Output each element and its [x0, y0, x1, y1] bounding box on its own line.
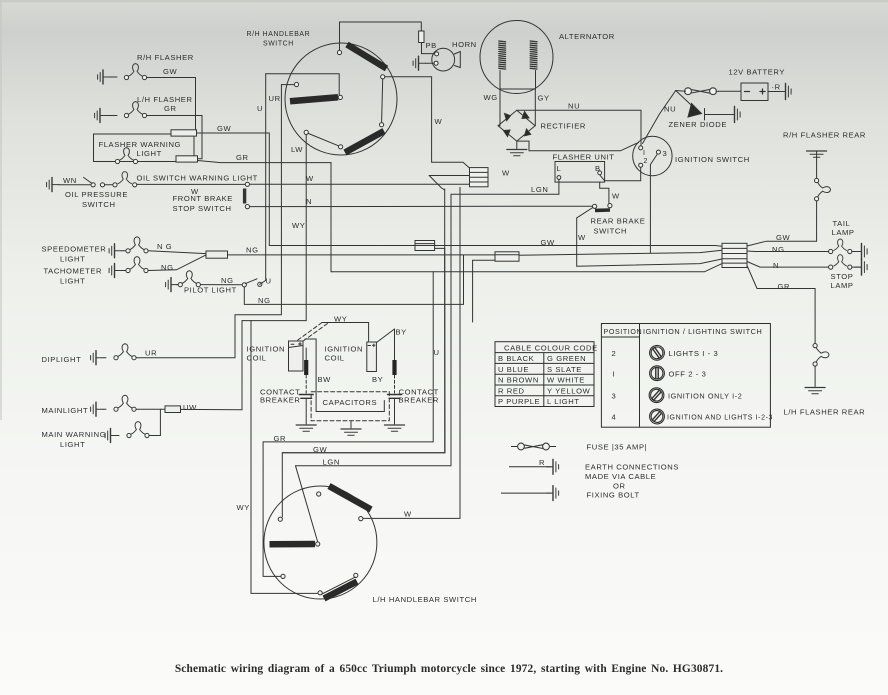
svg-text:LGN: LGN: [323, 458, 340, 467]
wire NG tacho rising to resistor: [148, 255, 206, 271]
switch bar top (LGN-W): [329, 486, 371, 510]
svg-text:W: W: [612, 192, 620, 201]
svg-text:U: U: [434, 348, 440, 357]
svg-text:COIL: COIL: [247, 354, 267, 363]
wire PB to horn upper terminal: [422, 43, 435, 54]
svg-text:FLASHER UNIT: FLASHER UNIT: [553, 153, 615, 162]
wire GR bus to connector: [331, 264, 722, 272]
svg-text:TAIL: TAIL: [833, 219, 851, 228]
wire box B tap down: [473, 260, 495, 322]
wire LGN bundle: [296, 465, 452, 467]
tachometer light lamp: [109, 257, 148, 278]
pilot switch contacts and blade: [242, 279, 262, 287]
R/H flasher rear flasher body: [815, 151, 831, 241]
svg-text:2: 2: [644, 158, 649, 165]
svg-text:G GREEN: G GREEN: [547, 354, 586, 363]
node: bottom terminal (WY): [318, 591, 322, 595]
contact breaker right bar: [394, 329, 396, 375]
svg-text:NG: NG: [258, 296, 271, 305]
legend fixing bolt earth: [501, 485, 559, 501]
svg-text:GW: GW: [776, 233, 791, 242]
svg-text:B BLACK: B BLACK: [498, 354, 534, 363]
svg-text:LIGHT: LIGHT: [60, 277, 85, 286]
wire GY down to rectifier: [534, 89, 536, 126]
flasher warning light box: [94, 134, 195, 164]
svg-text:L/H HANDLEBAR SWITCH: L/H HANDLEBAR SWITCH: [373, 595, 477, 604]
wire NG speedo to resistor: [148, 251, 206, 254]
svg-text:GR: GR: [274, 434, 287, 443]
zener diode: [676, 91, 740, 123]
legend fuse symbol: [511, 443, 556, 450]
svg-text:ALTERNATOR: ALTERNATOR: [559, 32, 615, 41]
svg-text:LIGHT: LIGHT: [60, 255, 85, 264]
svg-text:I: I: [613, 370, 616, 379]
rectifier earth: [507, 141, 527, 156]
svg-text:R/H FLASHER REAR: R/H FLASHER REAR: [783, 131, 866, 140]
svg-text:PILOT LIGHT: PILOT LIGHT: [184, 286, 237, 295]
svg-text:L/H FLASHER: L/H FLASHER: [137, 95, 193, 104]
node: bottom left terminal: [304, 130, 308, 134]
svg-text:P PURPLE: P PURPLE: [498, 397, 540, 406]
wire GR from L/H flasher down to lower resistor: [198, 116, 203, 159]
svg-text:IGNITION ONLY I-2: IGNITION ONLY I-2: [668, 392, 742, 401]
oil pressure switch: [59, 177, 113, 187]
SECTION: text labels: [42, 31, 867, 604]
svg-text:GR: GR: [236, 153, 249, 162]
switch bar bottom-right: [345, 131, 384, 153]
key symbol position 1: [650, 366, 665, 381]
wire NG bus to connector: [228, 250, 723, 255]
alternator right winding: [530, 41, 537, 69]
svg-text:CAPACITORS: CAPACITORS: [323, 398, 378, 407]
svg-text:IGNITION SWITCH: IGNITION SWITCH: [675, 155, 750, 164]
position / ignition lighting switch table: [601, 324, 770, 428]
wire U from R/H switch box down to pilot switch: [260, 74, 266, 284]
wire LGN from L leftwards: [451, 179, 559, 465]
svg-text:ZENER DIODE: ZENER DIODE: [669, 120, 728, 129]
wire W from right terminal to W connector: [385, 77, 470, 168]
node: left lower terminal (GR): [281, 574, 285, 578]
wire box A output to U vertical: [435, 247, 445, 249]
connector block rear harness: [722, 243, 747, 267]
node: horn upper terminal: [435, 52, 439, 56]
wire N connector to stop lamp: [747, 262, 829, 268]
svg-text:L: L: [557, 164, 562, 173]
node: ignition terminal 2: [639, 163, 643, 167]
svg-text:BY: BY: [372, 375, 383, 384]
svg-text:IGNITION: IGNITION: [325, 345, 364, 354]
svg-text:RECTIFIER: RECTIFIER: [541, 122, 586, 131]
node: right terminal: [381, 75, 385, 79]
svg-text:NG: NG: [161, 263, 174, 272]
svg-text:Schematic wiring diagram of: Schematic wiring diagram of a 650cc Triu…: [175, 663, 723, 675]
node: mid-left terminal: [294, 82, 298, 86]
svg-text:WG: WG: [484, 93, 498, 102]
wire BY diagonal from right coil: [376, 329, 394, 343]
wire N: front brake to rear brake: [250, 205, 593, 207]
svg-text:FRONT BRAKE: FRONT BRAKE: [173, 194, 233, 203]
L/H flasher lamp: [95, 102, 202, 123]
resistor NG (instruments): [206, 251, 228, 258]
svg-text:GW: GW: [313, 445, 328, 454]
ignition switch circle: [633, 136, 672, 175]
L/H flasher rear earth: [805, 388, 825, 394]
svg-text:FUSE |35 AMP|: FUSE |35 AMP|: [587, 443, 648, 452]
switch box bracket: [266, 74, 340, 95]
svg-text:LIGHTS I - 3: LIGHTS I - 3: [669, 349, 719, 358]
svg-text:SWITCH: SWITCH: [82, 200, 116, 209]
wire WY/W down from bottom-left terminal: [305, 135, 307, 321]
wire UR diplight routing: [136, 85, 281, 358]
L/H handlebar switch circle: [264, 486, 377, 599]
svg-text:NU: NU: [664, 105, 676, 114]
node: front brake tap terminal: [245, 182, 249, 186]
wire to top edge / PB: [340, 22, 422, 53]
svg-text:W: W: [502, 169, 510, 178]
svg-text:SWITCH: SWITCH: [263, 41, 294, 48]
svg-text:OIL PRESSURE: OIL PRESSURE: [65, 190, 128, 199]
wire LGN diagonal into L/H switch: [296, 466, 318, 542]
main warning light lamp: [105, 422, 149, 443]
svg-text:S SLATE: S SLATE: [547, 365, 582, 374]
R/H flasher lamp: [98, 64, 196, 84]
speedometer light lamp: [109, 237, 148, 258]
svg-text:U BLUE: U BLUE: [498, 365, 529, 374]
svg-text:NG: NG: [772, 245, 785, 254]
svg-text:UW: UW: [183, 403, 197, 412]
svg-text:UR: UR: [145, 349, 157, 358]
node: ignition terminal 1: [639, 146, 643, 150]
svg-text:LAMP: LAMP: [831, 281, 854, 290]
mainlight lamp: [91, 395, 137, 416]
svg-text:OR: OR: [613, 482, 626, 491]
thin link bottom-left: [308, 133, 338, 145]
wire NG pilot to switch: [200, 284, 242, 286]
svg-text:NG: NG: [221, 276, 234, 285]
W connector block: [470, 168, 489, 187]
svg-text:EARTH CONNECTIONS: EARTH CONNECTIONS: [585, 463, 679, 472]
svg-text:IGNITION AND LIGHTS I-2-3: IGNITION AND LIGHTS I-2-3: [667, 415, 773, 422]
wire WG down to rectifier: [499, 89, 502, 126]
svg-text:UR: UR: [269, 94, 281, 103]
wire GR connector to L/H flasher rear: [747, 266, 815, 344]
R/H flasher rear: earth: [807, 151, 827, 157]
dashed link to capacitor left: [305, 375, 307, 393]
wire W rectifier bottom to ignition area: [517, 141, 639, 151]
svg-text:BREAKER: BREAKER: [399, 396, 440, 405]
oil switch warning light lamp: [113, 172, 137, 187]
svg-text:B: B: [595, 164, 601, 173]
capacitors dashed box: [311, 392, 389, 421]
diplight lamp: [91, 344, 137, 365]
svg-text:BW: BW: [318, 375, 332, 384]
svg-text:LIGHT: LIGHT: [60, 440, 85, 449]
front brake stop switch: [245, 189, 250, 209]
svg-text:BREAKER: BREAKER: [260, 396, 301, 405]
wire W from B down to rear brake switch: [600, 182, 609, 203]
wire GW bus to connector: [269, 245, 722, 248]
svg-text:·R: ·R: [772, 83, 781, 92]
alternator stator box: [500, 71, 536, 90]
key symbol position 4: [647, 406, 668, 427]
switch bar bottom: [324, 582, 357, 599]
svg-text:2: 2: [612, 349, 617, 358]
svg-text:WY: WY: [237, 503, 250, 512]
svg-text:MADE VIA CABLE: MADE VIA CABLE: [585, 472, 656, 481]
svg-text:R RED: R RED: [498, 386, 525, 395]
capacitor left: [299, 395, 313, 425]
wire UW right and up: [181, 321, 243, 410]
tail lamp: [829, 239, 867, 260]
ignition coil right: [367, 342, 377, 372]
resistor box B on NG bus: [495, 252, 519, 261]
resistor UW: [165, 406, 181, 413]
wire NU from rectifier to ignition switch: [517, 110, 641, 146]
svg-text:W WHITE: W WHITE: [547, 376, 585, 385]
svg-text:W: W: [578, 233, 586, 242]
svg-text:4: 4: [612, 413, 617, 422]
svg-text:LW: LW: [291, 145, 303, 154]
ignition coil left: [289, 341, 304, 371]
svg-text:WY: WY: [334, 315, 347, 324]
svg-text:LGN: LGN: [531, 185, 548, 194]
wire NG connector to tail lamp: [747, 250, 829, 253]
svg-text:REAR BRAKE: REAR BRAKE: [591, 217, 646, 226]
alternator left winding: [499, 41, 506, 69]
fuse PB: [419, 31, 424, 43]
svg-text:L LIGHT: L LIGHT: [547, 397, 580, 406]
wire earth to horn lower terminal: [426, 62, 435, 64]
wire U from connector down: [429, 175, 469, 177]
svg-text:NU: NU: [568, 102, 580, 111]
svg-text:POSITION: POSITION: [604, 328, 643, 336]
key symbol position 2: [647, 342, 668, 363]
wire GR bundle: [263, 272, 433, 442]
svg-text:GW: GW: [163, 67, 178, 76]
svg-text:MAINLIGHT: MAINLIGHT: [42, 406, 89, 415]
wire WY horizontal: [322, 323, 369, 342]
node: ignition terminal 3: [656, 150, 660, 154]
svg-text:N BROWN: N BROWN: [498, 376, 539, 385]
pilot light lamp: [166, 271, 201, 292]
svg-text:N: N: [773, 261, 779, 270]
wire GR: lower resistor to right, down at x=331: [198, 161, 332, 272]
alternator circle: [480, 21, 553, 94]
wire horizontal WY jog: [242, 320, 306, 322]
node: switch top terminal: [337, 50, 341, 54]
wire WY dashed to left coil: [297, 323, 328, 342]
svg-text:HORN: HORN: [452, 40, 477, 49]
earth capacitors centre: [341, 421, 361, 435]
svg-text:OFF 2 - 3: OFF 2 - 3: [669, 370, 707, 379]
wire NG from pilot switch down and right (bus): [244, 255, 463, 304]
node: mid-right bar terminal: [338, 95, 342, 99]
svg-text:FLASHER WARNING: FLASHER WARNING: [99, 140, 182, 149]
svg-text:R/H HANDLEBAR: R/H HANDLEBAR: [247, 31, 311, 38]
wire U/GW vertical: [282, 189, 444, 517]
svg-text:DIPLIGHT: DIPLIGHT: [42, 355, 82, 364]
svg-text:U: U: [266, 277, 272, 286]
wire GW bundle: [282, 452, 445, 454]
earth right breaker: [385, 425, 405, 431]
node: right upper terminal (W): [359, 517, 363, 521]
svg-text:GW: GW: [217, 124, 232, 133]
svg-text:CABLE COLOUR CODE: CABLE COLOUR CODE: [504, 344, 598, 353]
cable colour code table: [495, 342, 594, 407]
svg-text:L/H FLASHER REAR: L/H FLASHER REAR: [784, 408, 866, 417]
wire NU ignition 2 to flasher unit B: [600, 167, 641, 181]
horn earth: [413, 56, 425, 70]
node: bottom mid terminal: [339, 145, 343, 149]
svg-text:Y YELLOW: Y YELLOW: [547, 386, 591, 395]
svg-text:12V BATTERY: 12V BATTERY: [729, 68, 786, 77]
svg-text:U: U: [257, 104, 263, 113]
wire main warning joins UW: [149, 409, 160, 435]
rectifier diamond: [498, 110, 535, 141]
wire W rear brake to stop lamp line: [577, 208, 722, 267]
wire W from connector down to L/H switch: [363, 187, 460, 518]
battery earth: [768, 84, 791, 100]
svg-text:R/H FLASHER: R/H FLASHER: [137, 53, 194, 62]
svg-text:PB: PB: [426, 41, 437, 50]
svg-text:N G: N G: [157, 242, 172, 251]
wire NU from fuse to ignition terminal 1: [643, 91, 686, 144]
svg-text:GR: GR: [778, 282, 791, 291]
wire GW bundle riser: [444, 248, 446, 452]
node: right lower terminal: [354, 573, 358, 577]
node: rear brake left terminal: [593, 204, 597, 208]
switch bar top-right: [347, 45, 387, 69]
svg-text:BY: BY: [396, 328, 407, 337]
svg-text:STOP SWITCH: STOP SWITCH: [173, 204, 232, 213]
key symbol position 3: [646, 385, 667, 406]
node: top terminal: [317, 492, 321, 496]
SECTION: tables and legend: [495, 324, 770, 502]
node: terminal L: [557, 176, 561, 180]
capacitor right: [388, 395, 402, 425]
svg-text:OIL SWITCH WARNING LIGHT: OIL SWITCH WARNING LIGHT: [137, 174, 258, 183]
wire GW bus: warning box to right, down at x=269.3: [197, 133, 270, 246]
node: lower right terminal: [380, 123, 384, 127]
wire WY down to L/H switch: [251, 321, 318, 594]
node: left upper terminal (GW): [278, 517, 282, 521]
rear brake contact bar: [595, 208, 610, 212]
resistor on GW line (flasher warning): [171, 130, 197, 136]
svg-text:TACHOMETER: TACHOMETER: [44, 267, 103, 276]
earth left breaker: [296, 425, 316, 431]
node: rear brake right terminal: [608, 204, 612, 208]
battery 12V: [741, 83, 768, 101]
R/H handlebar switch circle: [285, 43, 397, 155]
svg-text:MAIN WARNING: MAIN WARNING: [42, 430, 107, 439]
wire UR from mid-left terminal: [281, 84, 294, 86]
svg-text:STOP: STOP: [831, 272, 854, 281]
svg-text:W: W: [404, 510, 412, 519]
wire GW connector to R/H flasher rear: [747, 241, 817, 246]
svg-text:IGNITION: IGNITION: [247, 345, 286, 354]
wire W bus to connector: [250, 183, 470, 185]
svg-text:W: W: [306, 174, 314, 183]
wire GW from R/H flasher down to flasher warning box: [171, 78, 196, 133]
oil pressure switch earth: [47, 178, 59, 192]
svg-text:R: R: [539, 458, 545, 467]
chord wire right side: [382, 79, 383, 123]
svg-text:FIXING BOLT: FIXING BOLT: [587, 491, 640, 500]
svg-text:COIL: COIL: [325, 354, 345, 363]
svg-text:LAMP: LAMP: [832, 228, 855, 237]
svg-text:WY: WY: [292, 221, 305, 230]
node: middle bar right terminal: [316, 542, 320, 546]
flasher unit box: [555, 162, 605, 183]
node: horn lower terminal: [434, 61, 438, 65]
contact breaker left bar: [305, 348, 307, 375]
svg-text:LIGHT: LIGHT: [137, 149, 162, 158]
rectifier diode arrows: [505, 114, 511, 121]
svg-text:3: 3: [663, 149, 668, 158]
svg-text:3: 3: [612, 392, 617, 401]
svg-text:N: N: [306, 197, 312, 206]
ignition blade and wire down to NG bus: [650, 154, 657, 253]
wire to UW resistor: [136, 408, 165, 410]
switch bar middle: [290, 97, 338, 101]
svg-text:NG: NG: [246, 246, 259, 255]
svg-text:SPEEDOMETER: SPEEDOMETER: [42, 245, 107, 254]
svg-text:GY: GY: [538, 94, 550, 103]
wire GR down to L/H switch: [263, 442, 281, 577]
dashed link to capacitor right: [394, 375, 396, 393]
horn body: [432, 48, 460, 71]
svg-text:SWITCH: SWITCH: [594, 227, 628, 236]
resistor on GR line (flasher warning): [176, 156, 198, 162]
node: terminal B: [598, 171, 602, 175]
svg-text:I: I: [643, 150, 646, 157]
svg-text:W: W: [435, 117, 443, 126]
svg-text:WN: WN: [63, 176, 77, 185]
fuse 35A: [685, 88, 741, 95]
thin link bottom bar to terminal: [322, 577, 355, 594]
legend earth via cable: [509, 459, 559, 475]
switch bar middle: [270, 541, 316, 548]
resistor box A on GW bus: [415, 241, 435, 251]
svg-text:IGNITION / LIGHTING SWITCH: IGNITION / LIGHTING SWITCH: [643, 327, 762, 336]
wire W: oil warning light to front brake node: [137, 183, 245, 185]
stop lamp: [829, 255, 867, 276]
svg-text:GR: GR: [164, 104, 177, 113]
wire BW from left coil down and across: [305, 339, 384, 412]
L/H flasher rear flasher body: [813, 344, 829, 387]
svg-text:GW: GW: [541, 238, 556, 247]
